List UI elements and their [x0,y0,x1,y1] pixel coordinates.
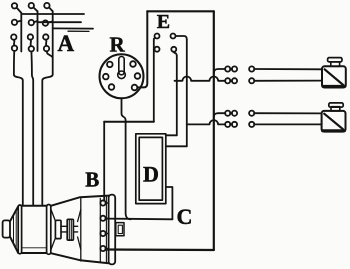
spark coil 2 diagonal [324,114,343,130]
magneto cutaway right bottom [78,237,81,250]
condenser D inner box [139,137,162,200]
switch A column 2 blade bar (vertical) [37,11,39,51]
wire row 2 to spark coil 1 [254,80,322,82]
dynamo B end cap nub [3,220,10,237]
wire ground run terminal 4 to bus [106,248,214,251]
timer R contact 4 [135,73,141,79]
shaft coupling left flange [55,220,61,238]
spark coil 2 cap [329,103,343,107]
spark coil 1 neck [331,62,340,67]
shaft stub top [73,225,77,227]
switch A column 2 link c-d [29,40,32,46]
timer R contact 1 [107,62,113,68]
row 2 terminal b [232,78,237,83]
coil box terminal TR [171,34,176,39]
row 1 terminal a [225,66,230,71]
switch A column 3 contact d [44,46,49,51]
wire battery line 1 [21,13,84,15]
row 3 terminal b [232,111,237,116]
row 3 terminal c [249,111,254,116]
dynamo B left cone hatch 2 [15,210,17,248]
svg-text:R: R [110,32,126,56]
switch A column 3 contact c [43,34,48,39]
dynamo B drum top [22,205,47,207]
dynamo B right ring [47,205,51,255]
wire timer R contact 6 to coil box top corner [137,11,147,87]
timer R contact 3 [103,74,109,80]
brush box inner [118,225,122,233]
spark coil 2 body [322,111,346,132]
row 2 terminal link [230,80,232,82]
wire battery line 4 (short) [68,30,89,32]
wire spark row 3 from bus [214,113,226,117]
switch A column 2 contact d [29,46,34,51]
magneto housing bottom edge [51,253,109,263]
row 4 terminal a [225,122,230,127]
wire TR tail [176,36,187,40]
switch A column 2 top contact [29,3,34,8]
switch A column 3 top contact [44,3,49,8]
wire BR tail [174,52,177,56]
terminal 3 tick [106,233,109,235]
coil box E top edge [147,10,214,12]
wire battery line 2 [38,21,82,23]
spark coil 2 neck [331,107,340,111]
switch A column 3 blade bar (vertical) [42,11,52,205]
wire switch A column 2 down to dynamo [31,52,33,206]
shaft coupling spool inner line 1 [68,219,70,240]
wire TR to D box [166,145,187,147]
svg-text:A: A [58,31,75,56]
wire spark row 1 from bus [214,69,226,74]
wire row 3 to spark coil 2 [254,112,322,114]
row 3 terminal a [225,111,230,116]
timer R body [100,54,144,98]
dynamo B left cone bottom [10,237,18,253]
timer R contact 5 [109,84,115,90]
timer R contact 6 [132,85,138,91]
dynamo B left ring [18,205,21,254]
shaft stub bottom [73,231,77,233]
magneto housing hatch line 2 [105,197,107,263]
wire spark row 4 from coil box [187,120,226,124]
wire row 1 to spark coil 1 [254,68,322,70]
coil box terminal BL [155,47,160,52]
terminal 1 tick [106,202,109,204]
wire BR vertical [176,56,178,135]
row 1 terminal c [249,66,254,71]
shaft line top [61,225,67,227]
brush box outer [116,223,124,236]
switch A column 3 contact b tick [48,21,53,22]
wire battery line 3 [53,27,93,29]
dynamo B drum shading line [22,247,46,249]
wire primary horizontal [104,121,154,123]
coil box E right bus [213,11,215,250]
wire bottom run to dynamo terminal 2 [106,218,173,221]
row 1 terminal link [230,68,232,70]
svg-text:E: E [157,11,170,33]
svg-text:B: B [85,168,99,192]
wire spark row 2 from coil box [175,77,226,81]
wire BL tail [153,48,156,51]
dynamo terminal 3 [100,231,105,236]
shaft coupling spool inner line 2 [70,219,72,240]
timer R rotor slot [119,57,124,75]
dynamo terminal 1 [100,200,105,205]
magneto cutaway left bottom [51,238,56,251]
row 4 terminal link [230,123,232,125]
row 4 terminal b [232,122,237,127]
switch A column 3 contact b [43,20,48,25]
wire down to dynamo terminal 1 [103,122,105,201]
switch A column 2 contact c [28,34,33,39]
wire TR vertical [186,40,188,147]
coil box terminal TL [155,34,160,39]
switch A column 1 contact c [11,34,16,39]
spark coil 1 cap [328,58,342,62]
timer R contact 2 [130,61,136,67]
spark coil 1 diagonal [325,69,344,85]
condenser D outer box [136,134,166,204]
spark coil 1 bottom [323,85,345,88]
wire row 4 to spark coil 2 [254,123,322,125]
switch A column 2 contact b tick [34,21,38,22]
magneto cutaway left top [51,209,56,222]
switch A column 1 contact d [12,46,17,51]
magneto housing hatch line [99,198,101,261]
wire D box to bottom run [166,187,173,219]
wire BR to D box [166,134,177,136]
dynamo B drum bottom [22,252,47,254]
wire TL tail [154,38,155,40]
dynamo terminal 4 [100,246,105,251]
spark coil 2 bottom [323,129,345,132]
switch A column 1 blade [17,8,22,13]
wire left terminals down [153,40,155,122]
magneto housing top edge [51,196,109,206]
row 3 terminal link [230,112,232,114]
wire switch A column 3 d tail [47,51,53,57]
switch A column 2 blade [33,7,37,11]
magneto cutaway edge [80,199,82,262]
wire switch A column 1 down to dynamo [14,51,23,205]
wire junction down leg [126,122,131,220]
switch A column 3 blade [49,7,53,11]
terminal 4 tick [106,248,109,250]
svg-text:D: D [143,161,159,186]
shaft coupling spool [67,219,73,240]
switch A column 1 top contact [12,3,17,8]
dynamo terminal 2 [100,216,105,221]
switch A column 1 contact b tick [17,21,21,22]
row 2 terminal a [225,78,230,83]
switch A column 2 contact b [29,20,34,25]
switch A column 3 link c-d [45,40,48,46]
terminal 2 tick [106,217,109,219]
spark coil 1 body [322,66,346,87]
switch A column 1 contact b [12,20,17,25]
wire terminal 1 up [103,199,104,202]
wire timer R bottom lead [122,98,126,121]
timer R rotor hub [118,71,126,79]
switch A column 1 link c-d [13,40,16,46]
dynamo B left cone hatch [13,215,15,242]
coil box terminal BR [171,47,176,52]
svg-text:C: C [177,204,193,229]
shaft line bottom [61,231,67,233]
magneto cutaway right top [78,210,81,222]
switch A column 1 blade bar (vertical) [20,13,22,52]
row 4 terminal c [249,122,254,127]
row 2 terminal c [249,78,254,83]
dynamo B left cone top [10,206,18,221]
dynamo terminal plate [109,195,116,265]
row 1 terminal b [232,66,237,71]
